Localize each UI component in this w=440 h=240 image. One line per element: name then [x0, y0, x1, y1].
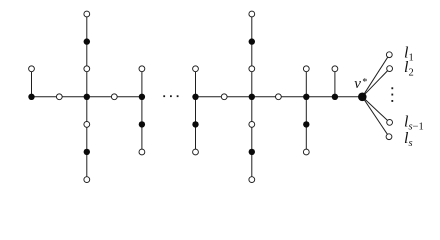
- svg-text:*: *: [362, 77, 367, 88]
- svg-text:v: v: [354, 76, 361, 92]
